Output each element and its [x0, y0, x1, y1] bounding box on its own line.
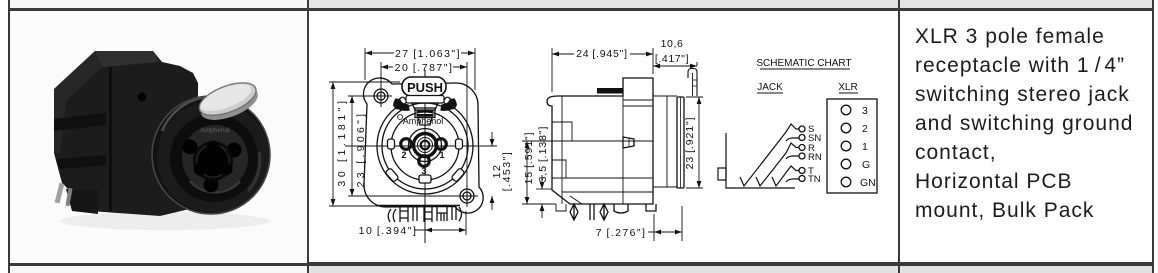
- svg-text:Amphenol: Amphenol: [403, 116, 444, 126]
- svg-text:TN: TN: [808, 174, 821, 185]
- svg-text:24 [.945"]: 24 [.945"]: [576, 48, 628, 60]
- svg-text:XLR: XLR: [838, 82, 857, 93]
- svg-text:JACK: JACK: [757, 82, 783, 93]
- svg-text:3: 3: [421, 166, 426, 176]
- svg-text:23 [.921"]: 23 [.921"]: [684, 117, 696, 170]
- svg-text:10,6: 10,6: [661, 38, 684, 50]
- svg-text:1: 1: [439, 150, 444, 160]
- svg-text:15 [.591"]: 15 [.591"]: [523, 132, 535, 185]
- svg-text:1: 1: [862, 141, 868, 153]
- svg-text:30 [1.181"]: 30 [1.181"]: [336, 97, 348, 186]
- svg-text:10 [.394"]: 10 [.394"]: [359, 225, 418, 237]
- svg-text:27 [1.063"]: 27 [1.063"]: [395, 48, 461, 60]
- svg-text:3,5 [.138"]: 3,5 [.138"]: [537, 126, 549, 183]
- svg-text:23 [.906"]: 23 [.906"]: [355, 111, 367, 188]
- svg-text:2: 2: [862, 123, 868, 135]
- svg-text:PUSH: PUSH: [407, 80, 443, 95]
- svg-text:GN: GN: [860, 177, 876, 189]
- svg-text:Amphenol: Amphenol: [200, 127, 230, 134]
- svg-text:2: 2: [401, 150, 406, 160]
- svg-text:RN: RN: [808, 152, 822, 163]
- svg-text:3: 3: [862, 105, 868, 117]
- svg-text:7 [.276"]: 7 [.276"]: [596, 227, 647, 239]
- svg-text:[.417"]: [.417"]: [655, 53, 689, 65]
- svg-text:G: G: [862, 159, 870, 171]
- svg-text:SCHEMATIC CHART: SCHEMATIC CHART: [756, 58, 851, 69]
- svg-text:20 [.787"]: 20 [.787"]: [395, 62, 454, 74]
- svg-text:[.453"]: [.453"]: [501, 151, 513, 192]
